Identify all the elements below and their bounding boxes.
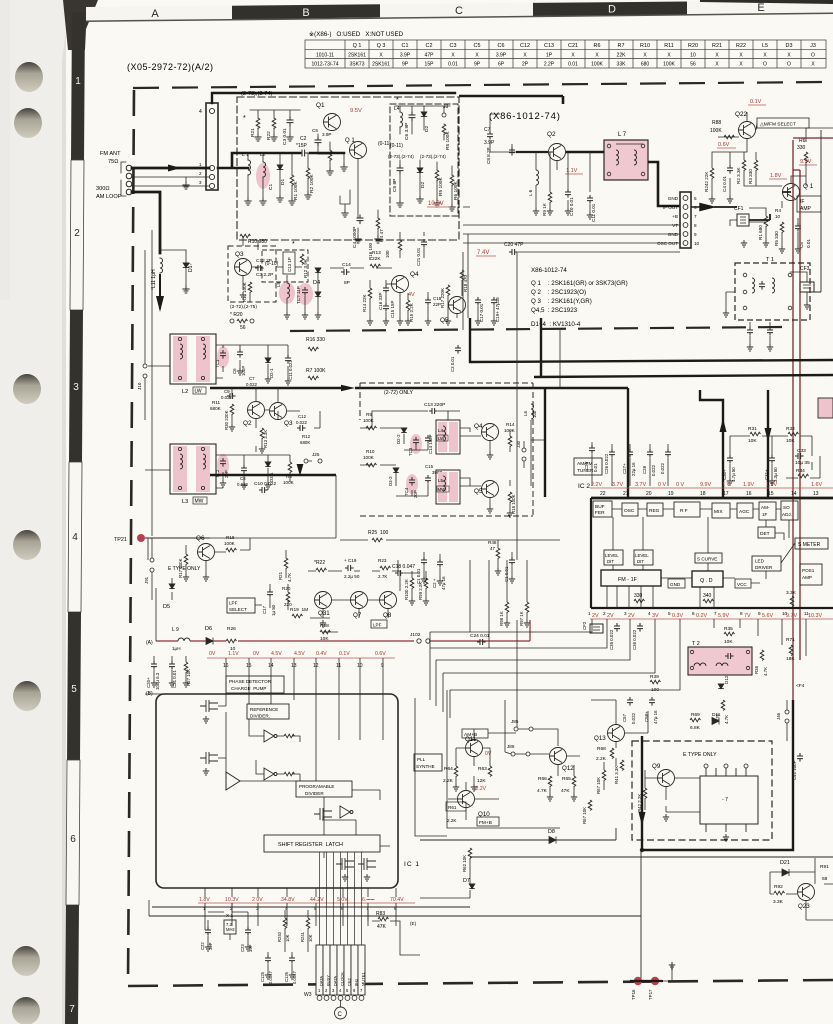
red voltage row IC2 bottom — [592, 613, 822, 619]
svg-text:R39: R39 — [650, 674, 659, 680]
svg-text:DIVIDER.: DIVIDER. — [250, 714, 270, 719]
svg-text:C20+: C20+ — [146, 677, 151, 688]
table row 1010-11 — [316, 52, 815, 58]
left strip white segment 4 — [68, 462, 82, 612]
resistor R98 1K — [505, 602, 509, 613]
svg-text:SHIFT REGISTER LATCH: SHIFT REGISTER LATCH — [278, 842, 343, 848]
outer dashed border bottom — [128, 980, 833, 986]
svg-text:LEVEL: LEVEL — [605, 553, 619, 558]
pin numbers PLL top — [223, 663, 384, 669]
svg-text:IC 2: IC 2 — [578, 483, 590, 490]
LEVEL DIT block 2 — [634, 550, 653, 565]
capacitor C14 150P — [425, 435, 431, 444]
resistor R42 2.2K — [643, 788, 647, 799]
svg-text:R61: R61 — [448, 805, 457, 810]
resistor R97 1K — [525, 602, 529, 613]
transistor Q11 — [466, 740, 483, 757]
svg-text:*: * — [396, 97, 399, 104]
resistor R240 10K — [283, 918, 287, 929]
svg-text:3: 3 — [256, 906, 259, 911]
resistor R21 — [256, 118, 260, 129]
svg-text:Q6: Q6 — [196, 535, 205, 542]
svg-text:L 7: L 7 — [618, 132, 627, 138]
small resistor inside 2 — [284, 772, 295, 776]
svg-text:C36 0.022: C36 0.022 — [632, 629, 637, 650]
svg-text:C57: C57 — [622, 713, 627, 722]
AM/FM TUNER box — [574, 458, 602, 475]
capacitor C28 0.022 — [647, 449, 653, 458]
svg-text:(2-73),(2-74): (2-73),(2-74) — [241, 91, 273, 97]
svg-text:+ C19: + C19 — [344, 558, 357, 563]
pin stub wires — [226, 658, 383, 694]
svg-text:R5 100K: R5 100K — [438, 177, 444, 196]
punch hole 6 — [12, 946, 40, 976]
svg-text:2.2P: 2.2P — [544, 62, 555, 68]
svg-text:10: 10 — [782, 611, 788, 616]
capacitor C125 0.0047 — [265, 955, 271, 964]
svg-text:C4 0.01: C4 0.01 — [722, 175, 727, 192]
svg-text:C1: C1 — [402, 43, 409, 49]
right edge riser wire — [810, 130, 821, 292]
svg-text:Q9: Q9 — [652, 763, 661, 770]
filler grounds under Q1b — [340, 190, 350, 210]
svg-text:R34: R34 — [796, 468, 805, 474]
long wire y907 — [152, 906, 470, 908]
transistor Q5 — [449, 297, 466, 314]
resistor R70 4.7K — [721, 700, 725, 711]
svg-text:10.3V: 10.3V — [428, 201, 444, 207]
red trace bus — [156, 620, 530, 641]
(C) circle terminal — [340, 1000, 342, 1007]
PLL SYNTHE box — [414, 754, 442, 771]
svg-text:O: O — [787, 62, 791, 68]
svg-text:O: O — [811, 52, 815, 58]
svg-text:3.3K: 3.3K — [786, 590, 797, 596]
wires L3 cell — [145, 455, 290, 488]
svg-text:TC2: TC2 — [215, 469, 220, 478]
W3 pin numbers — [318, 988, 363, 993]
svg-text:3.7V: 3.7V — [612, 482, 623, 488]
arrow down — [159, 275, 161, 308]
svg-text:IC 1: IC 1 — [404, 861, 420, 868]
svg-text:Q22: Q22 — [735, 111, 748, 118]
internal wires IC1 — [218, 694, 390, 858]
long wire to TP line — [149, 900, 420, 972]
left number strip: black segment 1 — [71, 12, 85, 160]
svg-text:J86: J86 — [507, 744, 515, 749]
svg-text:R22: R22 — [736, 43, 746, 49]
svg-text:R5 330: R5 330 — [774, 231, 779, 246]
svg-text:4: 4 — [285, 906, 288, 911]
svg-text:5: 5 — [668, 611, 671, 616]
parts usage table — [305, 31, 826, 68]
svg-text:R21: R21 — [250, 128, 256, 137]
table row lines — [305, 40, 826, 68]
big triangle buffer — [226, 772, 240, 790]
J10 jumper — [143, 364, 147, 368]
capacitor C19 47u16 — [491, 297, 497, 306]
svg-text:D1~4 : KV1310-4: D1~4 : KV1310-4 — [531, 321, 581, 328]
svg-text:MW: MW — [195, 499, 204, 505]
svg-text:34.8V: 34.8V — [281, 897, 295, 903]
diode D4 — [315, 268, 321, 273]
svg-text:(2-72) ONLY: (2-72) ONLY — [384, 390, 414, 396]
svg-text:11: 11 — [804, 611, 809, 616]
wire pins 2,3 — [132, 177, 209, 186]
svg-text:R242 22K: R242 22K — [704, 171, 709, 192]
svg-text:2.7K: 2.7K — [378, 574, 388, 579]
svg-text:0.1V: 0.1V — [750, 99, 762, 105]
svg-text:(X05-2972-72)(A/2): (X05-2972-72)(A/2) — [127, 62, 214, 72]
VCC tag — [735, 579, 751, 588]
svg-text:100K: 100K — [710, 128, 722, 134]
left strip black segment 3 — [69, 310, 83, 462]
MIX block — [712, 503, 730, 518]
IF AMP box — [797, 196, 821, 212]
wire from pin4 up to board edge — [212, 93, 455, 103]
svg-text:L6: L6 — [523, 411, 528, 416]
pin 3 — [209, 183, 214, 188]
pin numbers — [694, 196, 700, 246]
svg-text:R14: R14 — [506, 422, 515, 427]
svg-text:R1 100K: R1 100K — [293, 181, 299, 200]
svg-text:C26 0.022: C26 0.022 — [604, 453, 609, 474]
svg-text:D7: D7 — [463, 878, 470, 884]
svg-text:5: 5 — [314, 906, 317, 911]
SO ADJ block — [781, 501, 798, 520]
svg-text:C126: C126 — [284, 971, 289, 982]
svg-text:0.022: 0.022 — [651, 464, 656, 476]
svg-text:L2: L2 — [182, 389, 188, 395]
svg-text:56: 56 — [690, 62, 696, 68]
svg-text:VCC: VCC — [737, 582, 747, 587]
svg-text:4.7K: 4.7K — [287, 573, 292, 582]
svg-text:4: 4 — [72, 532, 78, 543]
svg-text:R17 220K: R17 220K — [440, 288, 445, 308]
svg-text:9.7V: 9.7V — [786, 613, 797, 619]
resistor R1 100K — [290, 175, 294, 186]
capacitor C57 0.022 — [627, 697, 633, 706]
svg-text:7V: 7V — [744, 613, 751, 619]
svg-text:E TYPE ONLY: E TYPE ONLY — [683, 752, 717, 758]
resistor R1 680 — [764, 216, 768, 227]
svg-text:R26: R26 — [227, 626, 236, 632]
svg-text:PROGRAMABLE: PROGRAMABLE — [299, 784, 334, 789]
svg-text:300Ω: 300Ω — [96, 186, 110, 192]
svg-text:C35 0.022: C35 0.022 — [609, 629, 614, 650]
svg-text:C17 0.01: C17 0.01 — [479, 303, 484, 322]
svg-text:BUF: BUF — [595, 504, 605, 510]
transistor Q3 — [235, 259, 252, 276]
svg-text:R28: R28 — [320, 623, 329, 629]
svg-text:17: 17 — [723, 491, 729, 497]
resistor R67 10K — [602, 770, 606, 781]
svg-text:3.9P: 3.9P — [484, 140, 495, 146]
svg-text:C17: C17 — [262, 605, 267, 614]
svg-text:13: 13 — [813, 491, 819, 497]
BUF FER block — [593, 501, 612, 517]
thick MW bus — [210, 474, 336, 476]
svg-text:R98 1K: R98 1K — [499, 611, 504, 626]
svg-text:C6 3.9P: C6 3.9P — [404, 123, 410, 140]
svg-text:C19+ 47μ16: C19+ 47μ16 — [495, 297, 500, 322]
LPF SELECT box — [227, 598, 255, 613]
svg-text:75Ω: 75Ω — [108, 159, 118, 165]
svg-text:(2-72),(2-75): (2-72),(2-75) — [230, 304, 257, 310]
thick antenna wire with arrow — [132, 167, 209, 170]
capacitor C58 47u16 — [649, 697, 655, 706]
wires lower-left lattice — [152, 475, 560, 600]
DET block — [758, 527, 775, 538]
svg-text:9: 9 — [381, 663, 384, 669]
svg-text:3.7V: 3.7V — [635, 482, 646, 488]
coil L6 — [536, 170, 539, 185]
svg-text:GND: GND — [668, 232, 679, 237]
svg-text:DATA: DATA — [333, 976, 338, 986]
svg-text:R F: R F — [680, 508, 688, 514]
left strip black segment 5 — [67, 612, 81, 760]
svg-text:0V: 0V — [253, 651, 260, 657]
resistor R15 100K — [508, 492, 512, 503]
svg-text:7: 7 — [694, 214, 697, 219]
dashed box (2-73),(2-74) — [237, 97, 459, 240]
pin numbers IC2 bottom — [588, 611, 809, 616]
svg-text:Q31: Q31 — [318, 610, 330, 617]
svg-text:0.01: 0.01 — [806, 239, 811, 248]
svg-text:100: 100 — [385, 250, 390, 258]
svg-text:Q 1: Q 1 — [353, 43, 362, 49]
svg-text:C: C — [338, 1012, 343, 1018]
transistor Q4 — [392, 276, 409, 293]
antenna terminals — [126, 165, 132, 171]
svg-text:2: 2 — [74, 228, 80, 239]
svg-text:R1 680: R1 680 — [758, 225, 763, 240]
header bottom rule — [86, 13, 833, 23]
transistor Q31 — [315, 592, 332, 609]
svg-text:FM ANT: FM ANT — [100, 151, 121, 157]
capacitor C3 0.01 — [455, 345, 461, 354]
svg-text:R65: R65 — [562, 776, 571, 782]
thick wire TP area — [630, 980, 663, 982]
svg-text:※(X86-) O:USED X:NOT USED: ※(X86-) O:USED X:NOT USED — [309, 31, 404, 38]
transformer L5 block — [436, 470, 460, 504]
transistor Q12 — [550, 748, 567, 765]
header black cell B — [232, 4, 380, 19]
svg-text:Q 3 : 2SK161(Y,GR): Q 3 : 2SK161(Y,GR) — [531, 298, 592, 305]
svg-text:15: 15 — [768, 491, 774, 497]
capacitor C15 15P — [383, 303, 389, 312]
outer dashed border top — [133, 82, 826, 88]
svg-text:C25: C25 — [584, 461, 589, 470]
punch hole 7 — [12, 997, 40, 1024]
POS1 AMP block — [800, 564, 822, 585]
svg-text:5: 5 — [694, 196, 697, 201]
svg-text:LPF: LPF — [373, 623, 382, 628]
wires Q9 — [645, 770, 700, 812]
svg-text:7: 7 — [366, 906, 369, 911]
caps under T1 — [747, 327, 753, 336]
svg-text:44.2V: 44.2V — [310, 897, 324, 903]
svg-text:X86-1012-74: X86-1012-74 — [531, 267, 567, 274]
capacitor C41 100P — [797, 753, 803, 762]
svg-text:Q 1 : 2SK161(GR) or 3SK73(G: Q 1 : 2SK161(GR) or 3SK73(GR) — [531, 280, 628, 287]
svg-text:C14 150P: C14 150P — [428, 434, 433, 454]
svg-text:4.7K: 4.7K — [537, 788, 548, 794]
left strip white segment 2 (outline) — [70, 160, 84, 310]
mosfet symbol 1 — [200, 700, 218, 712]
svg-text:SELECT: SELECT — [229, 607, 247, 612]
coil L6b — [531, 404, 534, 419]
svg-text:LW: LW — [195, 389, 202, 395]
svg-text:D12: D12 — [724, 675, 729, 684]
capacitor C29 — [665, 449, 671, 458]
red voltage row PLL — [209, 651, 386, 657]
svg-text:Q 2 : 2SC1923(O): Q 2 : 2SC1923(O) — [531, 289, 586, 296]
svg-text:0.6V: 0.6V — [718, 142, 730, 148]
capacitor C8 0.022 — [241, 465, 247, 474]
svg-text:4.5V: 4.5V — [294, 651, 305, 657]
svg-text:C23: C23 — [240, 944, 245, 952]
svg-text:10K: 10K — [724, 639, 733, 645]
svg-text:C2 +: C2 + — [432, 578, 437, 588]
svg-text:0.01: 0.01 — [568, 62, 578, 68]
capacitor C23 39P — [245, 927, 251, 936]
svg-text:0.1V: 0.1V — [339, 651, 350, 657]
svg-text:2SK161: 2SK161 — [348, 52, 366, 58]
svg-text:OSC OUT: OSC OUT — [657, 241, 678, 246]
svg-text:2V: 2V — [628, 613, 635, 619]
svg-text:R21: R21 — [712, 43, 722, 49]
svg-text:IF: IF — [800, 199, 804, 205]
svg-text:2.2K: 2.2K — [447, 818, 457, 823]
svg-text:C16 33P: C16 33P — [378, 292, 383, 310]
svg-text:D6: D6 — [205, 626, 212, 632]
svg-text:8P: 8P — [344, 280, 350, 286]
punch hole 2 — [14, 108, 42, 138]
W3 pin circles — [317, 996, 364, 1001]
svg-text:*: * — [243, 115, 246, 122]
svg-text:Q4,5 : 2SC1923: Q4,5 : 2SC1923 — [531, 307, 578, 314]
svg-text:R35: R35 — [724, 626, 733, 632]
RF block — [674, 502, 700, 517]
transistor Q6 — [198, 544, 215, 561]
svg-text:R4 47: R4 47 — [379, 229, 385, 242]
wire row under Q1b — [358, 159, 378, 236]
svg-text:1.8V: 1.8V — [770, 173, 782, 179]
svg-text:1P: 1P — [546, 52, 553, 58]
thick board edge line — [459, 96, 563, 104]
filler caps in Q1 cell — [315, 137, 321, 146]
svg-text:20P: 20P — [413, 490, 418, 498]
svg-text:0.022: 0.022 — [237, 482, 249, 487]
svg-text:6P: 6P — [498, 62, 505, 68]
svg-text:0.01: 0.01 — [593, 463, 598, 472]
mosfet symbol 5 — [358, 858, 376, 870]
svg-text:CLOCK: CLOCK — [340, 972, 345, 986]
S CURVE block — [695, 553, 722, 563]
resistor R241 10K — [306, 918, 310, 929]
capacitor C21 0.01 — [421, 239, 427, 248]
capacitor C5 0.01 — [795, 223, 801, 232]
svg-text:100K: 100K — [283, 480, 295, 485]
svg-text:3V: 3V — [652, 613, 659, 619]
transformer L3 block — [170, 444, 216, 494]
svg-text:68: 68 — [822, 876, 828, 882]
svg-text:2V: 2V — [592, 613, 599, 619]
svg-text:2.2K: 2.2K — [596, 756, 607, 762]
svg-text:POS1: POS1 — [802, 568, 815, 573]
svg-text:1.6V: 1.6V — [811, 482, 822, 488]
svg-text:9.5V: 9.5V — [350, 108, 362, 114]
svg-text:3: 3 — [73, 382, 79, 393]
pin 1 — [209, 165, 214, 170]
IC footprint block — [700, 776, 758, 824]
resistor R36 4.7K — [760, 650, 764, 661]
OSC block — [622, 503, 638, 516]
svg-text:D1?: D1? — [188, 263, 194, 272]
inverter 2 — [264, 768, 277, 780]
svg-text:3.3K: 3.3K — [773, 899, 784, 905]
svg-text:18: 18 — [700, 491, 706, 497]
svg-text:R16 330: R16 330 — [306, 337, 325, 343]
svg-text:C11 0.022: C11 0.022 — [288, 360, 293, 380]
svg-text:10: 10 — [775, 214, 781, 219]
table column lines — [369, 40, 801, 68]
svg-text:C1 0.01: C1 0.01 — [416, 568, 421, 584]
svg-text:MUTE1: MUTE1 — [361, 972, 366, 986]
svg-text:S CURVE: S CURVE — [697, 557, 717, 562]
svg-text:1μH: 1μH — [172, 646, 181, 651]
thin long wire y916 to TP — [149, 850, 641, 978]
svg-text:R92: R92 — [774, 884, 783, 890]
capacitor C6 3.9P — [409, 112, 415, 121]
svg-text:2 0V: 2 0V — [252, 897, 263, 903]
svg-text:L5: L5 — [762, 43, 768, 49]
capacitor C18 22P — [425, 297, 431, 306]
resistor R100 2.2K — [410, 578, 414, 589]
capacitor C5 8P — [397, 165, 403, 174]
svg-text:0.022: 0.022 — [246, 382, 258, 387]
PHASE DETECTOR CHARGE PUMP box — [226, 676, 284, 693]
resistor R15 2.2K — [406, 300, 410, 311]
svg-text:4V: 4V — [408, 292, 415, 298]
svg-text:3: 3 — [624, 611, 627, 616]
svg-text:Q1: Q1 — [316, 102, 325, 109]
svg-text:9P: 9P — [474, 62, 481, 68]
red voltage row IC1 bottom — [199, 897, 404, 903]
parts list text — [531, 267, 628, 328]
svg-text:D2-2: D2-2 — [396, 434, 401, 444]
wires Q2/Q3 — [232, 388, 320, 461]
svg-text:21: 21 — [623, 491, 629, 497]
svg-text:C13: C13 — [544, 43, 554, 49]
capacitor C6 100P — [237, 349, 243, 358]
wires Q11-Q13 — [456, 700, 648, 794]
SHIFT REGISTER LATCH box — [264, 835, 380, 852]
capacitor C1b — [509, 557, 515, 566]
coil L1 — [248, 160, 251, 175]
svg-text:O: O — [763, 62, 767, 68]
svg-text:AMP: AMP — [800, 206, 812, 212]
svg-text:R20: R20 — [282, 586, 291, 591]
svg-text:D4: D4 — [313, 280, 320, 286]
svg-text:10K: 10K — [308, 934, 313, 942]
svg-text:8Hz: 8Hz — [354, 979, 359, 986]
svg-text:(E): (E) — [410, 921, 417, 926]
coil L11 1uH — [160, 258, 163, 273]
resistor R67h 10K vertical tall — [588, 800, 592, 811]
svg-text:R10 680: R10 680 — [248, 239, 267, 245]
